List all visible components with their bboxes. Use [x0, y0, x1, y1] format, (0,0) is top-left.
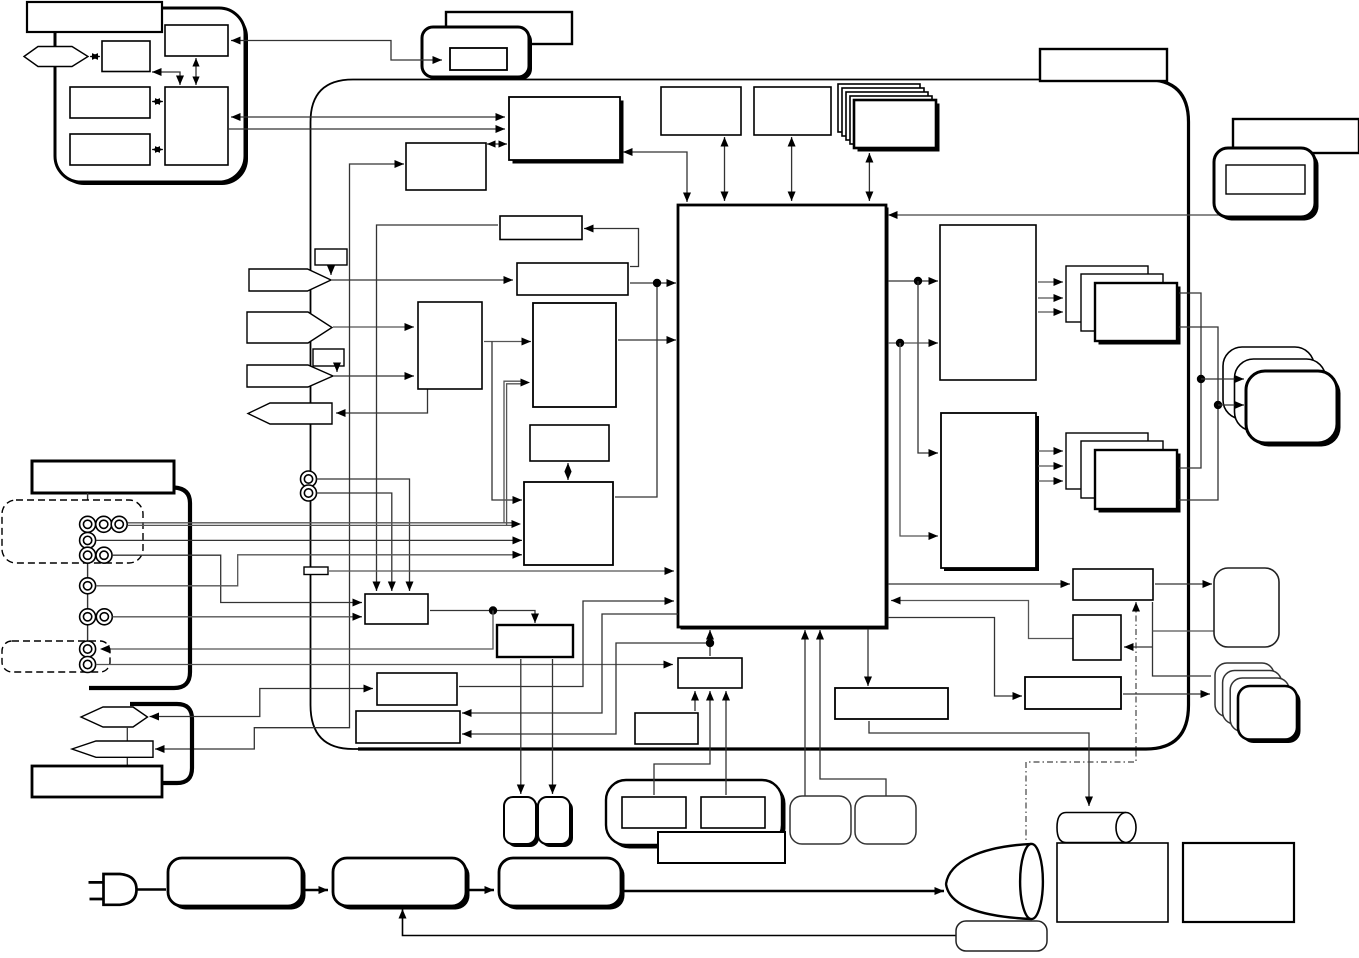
- wire row4 to boxC: [96, 551, 522, 586]
- box1073 lower: [1073, 615, 1121, 660]
- box M: [1183, 843, 1294, 922]
- wire dot to circle row6: [100, 611, 493, 654]
- wire central to boxG upper: [462, 614, 678, 717]
- bus row1 to boxC: [128, 520, 522, 528]
- cards stack bottom-right: [1215, 663, 1301, 743]
- box C (524,482): [524, 482, 613, 565]
- wire central to rect1 upper: [888, 277, 938, 285]
- tag 2 (left point): [72, 741, 153, 757]
- port row2: [80, 532, 96, 548]
- wire tall-box to box509 lower: [229, 125, 505, 133]
- wire top-middle to tall box vertical: [192, 58, 199, 85]
- bus vertical pair to boxB: [504, 379, 530, 526]
- wire boxB to central: [618, 336, 676, 344]
- rect2 right side: [941, 413, 1039, 571]
- box in group (left B): [70, 134, 150, 165]
- wire left A to tall box: [152, 98, 163, 105]
- wire left B to tall box: [152, 146, 163, 153]
- arrow box top A to central: [721, 137, 729, 201]
- dash-dot wire to horn: [1026, 602, 1140, 843]
- wire stack1 to stack2 inner: [1179, 327, 1218, 500]
- wire central to display device: [888, 211, 1262, 219]
- wire inner2 to boxH: [722, 691, 730, 795]
- wire box418 to banner4: [336, 389, 428, 417]
- arrow label to banner1: [327, 266, 335, 276]
- junction dot 1201-379: [1197, 375, 1205, 383]
- box I: [635, 713, 698, 744]
- tag connector line: [126, 727, 128, 766]
- wire rect2 to stack2 a: [1038, 447, 1063, 455]
- wire hexagon to box: [90, 53, 100, 60]
- top-left group title box: [27, 2, 162, 32]
- rounded box right (1214,568): [1214, 568, 1279, 647]
- wire box517 to central: [630, 279, 676, 287]
- wire rect1 to stack1 b: [1038, 294, 1063, 302]
- wire central to sqB: [816, 630, 886, 796]
- inner box of small rounded container: [450, 48, 507, 70]
- wire edge port upper to boxN top3: [317, 479, 414, 591]
- wire box1073dn loop to central: [891, 597, 1073, 639]
- wire branch to rect2 upper: [918, 281, 938, 457]
- box F: [377, 673, 457, 705]
- wire boxC to dot657: [615, 283, 657, 497]
- central main box: [678, 205, 889, 630]
- wire inner1 to boxH: [654, 691, 714, 795]
- wire box1073 loop right: [1124, 602, 1214, 676]
- port row4: [80, 578, 96, 594]
- port row5 c2: [96, 609, 112, 625]
- wire dot to cards top b: [1218, 401, 1244, 409]
- wire central to sqA: [801, 630, 809, 796]
- box B (533,303): [533, 303, 616, 407]
- box K: [1025, 677, 1121, 709]
- wide box overlapping bottom container: [658, 832, 785, 863]
- junction dot 918-281: [914, 277, 922, 285]
- wire boxE to sq2: [549, 659, 557, 794]
- box top A: [661, 87, 741, 135]
- port row6: [80, 641, 96, 657]
- wire rect2 to stack2 b: [1038, 462, 1063, 470]
- wire small box to tall box: [152, 68, 184, 85]
- wire branch to boxC y500: [492, 342, 522, 505]
- wire box517 to box500: [584, 225, 639, 267]
- bottom rounded container: [606, 780, 786, 849]
- banner 2 (right point): [247, 312, 332, 343]
- stack of boxes top-right: [838, 84, 940, 152]
- wire boxF to central: [459, 597, 674, 687]
- box on container top edge right: [1040, 49, 1167, 81]
- junction dot 657-283: [653, 279, 661, 287]
- wire banner1 to box517: [332, 276, 513, 284]
- box517: [517, 263, 628, 295]
- display device inner box: [1226, 165, 1305, 194]
- feedback wire to power box2: [399, 909, 957, 936]
- wire dot to cards top a: [1201, 375, 1244, 383]
- top-left group container: [55, 8, 248, 185]
- inner box 1 of bottom container: [622, 797, 686, 828]
- port row3 c1: [80, 547, 96, 563]
- box E: [497, 625, 573, 657]
- power box 1: [168, 858, 306, 910]
- dashed group box 2: [2, 641, 110, 672]
- left ports vertical line: [87, 493, 89, 665]
- junction dot 1218-405: [1214, 401, 1222, 409]
- wide box top-center: [446, 12, 572, 44]
- wire rect1 to stack1 c: [1038, 308, 1063, 316]
- box418: [418, 302, 482, 389]
- wire boxH top to central with branch: [462, 630, 714, 738]
- box in group (top middle): [165, 25, 228, 56]
- port row3 c2: [96, 547, 112, 563]
- wire edge port lower to boxN top2: [317, 493, 396, 591]
- small label box above banner1: [315, 249, 347, 265]
- wire row3 to boxN left1: [112, 555, 362, 606]
- rect1 right side: [940, 225, 1036, 380]
- wire box406 to box509: [487, 140, 507, 147]
- port row1 c3: [111, 516, 127, 532]
- wire central to boxJ: [864, 629, 872, 686]
- box406: [406, 143, 486, 190]
- wire boxI to boxH: [691, 691, 699, 711]
- wire boxJ to cylinder: [869, 721, 1093, 806]
- wire row7 to boxH: [96, 661, 673, 669]
- junction dot 900-343: [896, 339, 904, 347]
- box in group (left A): [70, 87, 150, 118]
- rounded tag below horn: [956, 921, 1047, 951]
- wire banner3 to box418: [334, 372, 414, 380]
- inner box 2 of bottom container: [701, 797, 765, 828]
- stack 2 right: [1066, 433, 1181, 513]
- tag group container 2: [130, 704, 192, 783]
- small rounded container top-center: [422, 27, 532, 80]
- box with shadow (509,97): [509, 97, 624, 164]
- label box left (thick): [32, 461, 174, 493]
- box in group (small upper): [102, 41, 150, 72]
- banner 4 (left point): [248, 403, 332, 424]
- tiny box on container edge: [304, 567, 328, 575]
- small rounded sq 2: [538, 797, 573, 847]
- wire boxN to boxE: [430, 611, 539, 624]
- wire box509 to central top: [623, 148, 691, 202]
- wire row5 to boxN left2: [113, 613, 363, 621]
- small rounded sq 1: [504, 797, 539, 847]
- connector hexagon P1: [24, 47, 88, 67]
- wire boxF to tag1: [150, 685, 374, 721]
- power box 2: [333, 858, 470, 910]
- small label box above banner3: [313, 349, 344, 366]
- box500: [500, 216, 582, 240]
- wire rect1 to stack1 a: [1038, 278, 1063, 286]
- wire power box2 to box3: [468, 886, 494, 894]
- power plug: [89, 874, 137, 905]
- port row7: [80, 657, 96, 673]
- box N: [365, 594, 428, 624]
- wire power box1 to box2: [304, 886, 328, 894]
- junction dot 710-643: [706, 639, 714, 647]
- rounded sq B bottom right: [855, 796, 916, 844]
- wire stack1 to stack2 outer: [1179, 293, 1201, 468]
- wire row2 to boxC: [96, 536, 522, 544]
- wire power box3 to horn: [623, 887, 944, 895]
- arrow box top B to central: [788, 137, 796, 201]
- wide box above device: [1233, 119, 1359, 153]
- wire central to boxK: [888, 618, 1022, 701]
- horn shape: [946, 844, 1043, 919]
- main system board container: [311, 80, 1189, 750]
- arrow label to banner3: [333, 363, 341, 373]
- display device rounded: [1214, 148, 1319, 221]
- cards stack top-right: [1223, 347, 1341, 447]
- wire box1073up to rounded box: [1155, 580, 1212, 588]
- dashed group box 1: [2, 500, 143, 563]
- wire plug to power box1: [138, 888, 167, 891]
- box J: [835, 688, 948, 719]
- port row1 c1: [80, 516, 96, 532]
- wire boxK to cards: [1123, 690, 1210, 698]
- box G: [356, 711, 460, 743]
- wire central to rect1 lower: [888, 339, 938, 347]
- wire banner2 to box418: [333, 323, 414, 331]
- box D (530,425): [530, 425, 609, 461]
- wire tall-box to box509 upper: [231, 113, 505, 121]
- wire group top-middle box to inner box: [231, 37, 442, 65]
- wire box418 to boxB: [484, 338, 531, 346]
- box top B: [754, 87, 831, 135]
- port row5 c1: [80, 609, 96, 625]
- wire branch to rect2 lower: [900, 343, 938, 540]
- wire box500 to boxN top1: [373, 225, 499, 591]
- wire tiny box to central: [328, 567, 674, 575]
- box L: [1057, 843, 1168, 922]
- arrow box D to box C: [564, 463, 571, 480]
- box1073 upper: [1073, 569, 1153, 600]
- arrow stack to central: [865, 153, 873, 201]
- wire x349 vertical to tag2 join: [155, 160, 404, 753]
- wire boxE to sq1: [517, 659, 525, 794]
- banner 1 (right point): [249, 269, 331, 291]
- port row1 c2: [96, 516, 112, 532]
- rounded sq A bottom right: [790, 796, 851, 844]
- label box left bottom (thick): [32, 766, 162, 797]
- box H: [678, 658, 742, 688]
- tall box in group: [165, 87, 228, 165]
- junction dot 493-610: [489, 606, 497, 614]
- left ports group container: [89, 488, 190, 689]
- wire central to box1073up: [888, 580, 1070, 588]
- wire rect2 to stack2 c: [1038, 477, 1063, 485]
- port circle on edge upper: [301, 471, 317, 487]
- tag hexagon 1: [81, 707, 148, 727]
- power box 3: [499, 858, 625, 910]
- stack 1 right: [1066, 266, 1181, 345]
- cylinder: [1057, 813, 1136, 843]
- port circle on edge lower: [301, 485, 317, 501]
- arrowhead into row6: [100, 645, 110, 653]
- banner 3 (right point): [247, 365, 333, 387]
